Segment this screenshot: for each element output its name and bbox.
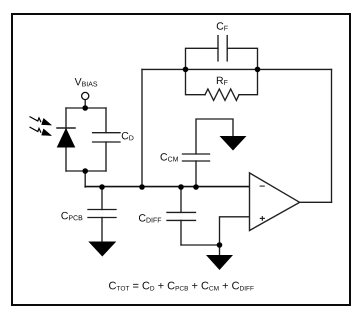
wire V_BIAS stub — [84, 100, 86, 108]
capacitor C_D plates — [93, 132, 120, 134]
wire C_F right lead — [227, 48, 257, 69]
wire feedback right vertical — [331, 69, 333, 202]
wire C_PCB bottom lead — [101, 218, 103, 242]
junction dot C_PCB — [99, 184, 105, 190]
wire R_F right lead — [239, 69, 258, 94]
label V_BIAS — [75, 78, 98, 86]
wire C_CM bottom lead — [195, 161, 197, 187]
wire C_PCB top lead — [101, 187, 103, 210]
wire C_D top lead — [105, 108, 107, 133]
wire noninverting input riser — [220, 217, 250, 245]
junction dot feedback right top — [255, 67, 261, 73]
wire photodiode left branch — [65, 108, 67, 171]
op-amp U1 — [250, 173, 300, 231]
junction dot anode rail — [82, 168, 88, 174]
label C_D — [122, 132, 134, 140]
wire C_DIFF to noninverting node — [181, 244, 220, 246]
junction dot feedback — [139, 184, 145, 190]
light arrow 1 — [30, 117, 52, 126]
junction dot C_CM — [193, 184, 199, 190]
wire R_F left lead — [186, 69, 206, 94]
label C_PCB — [61, 212, 82, 220]
resistor R_F — [205, 89, 239, 100]
ground triangle at C_CM — [220, 136, 247, 151]
wire op-amp output — [300, 201, 332, 203]
wire feedback top rail — [142, 68, 332, 70]
junction dot C_DIFF — [178, 184, 184, 190]
wire photodiode bottom rail — [66, 170, 106, 172]
junction dot noninverting node — [217, 242, 223, 248]
wire feedback left vertical — [141, 69, 143, 187]
ground triangle at C_PCB — [88, 242, 116, 257]
wire C_F left lead — [186, 48, 219, 69]
wire anode to input node — [84, 171, 86, 187]
label C_DIFF — [139, 214, 161, 222]
wire C_CM to ground — [196, 119, 233, 154]
capacitor C_DIFF plates — [167, 211, 196, 213]
photodiode cathode bar — [57, 127, 75, 129]
wire C_DIFF top lead — [180, 187, 182, 212]
wire C_DIFF bottom lead — [180, 220, 182, 245]
light arrow 2 — [30, 127, 52, 136]
op-amp minus sign — [260, 185, 265, 187]
ground triangle at noninverting input — [206, 255, 233, 270]
junction dot feedback left top — [183, 67, 189, 73]
V_BIAS terminal circle — [82, 92, 89, 99]
capacitor C_PCB plates — [88, 209, 116, 211]
photodiode D1 triangle — [58, 129, 75, 147]
capacitor C_F plates — [217, 36, 219, 61]
wire main input node row — [85, 186, 249, 188]
wire photodiode top rail — [66, 107, 106, 109]
capacitor C_CM plates — [183, 160, 210, 162]
label R_F — [217, 77, 228, 85]
junction dot V_BIAS rail — [82, 105, 88, 111]
label C_CM — [161, 153, 178, 161]
op-amp plus sign — [260, 217, 265, 219]
wire noninverting ground stub — [219, 245, 221, 255]
label C_F — [217, 22, 228, 30]
formula C_TOT — [109, 282, 254, 291]
wire C_D bottom lead — [105, 142, 107, 171]
